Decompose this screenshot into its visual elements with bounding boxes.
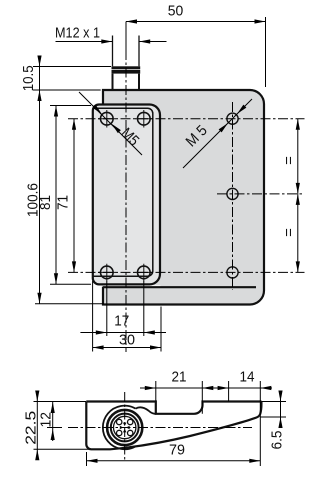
dim 6.5 [260,391,286,450]
dim 50 [126,3,266,88]
hinge leaf (inner plate) outer contour [93,105,160,285]
svg-text:14: 14 [240,369,255,386]
svg-text:=: = [281,228,298,237]
plate hole right-bottom [227,267,238,278]
dim 30 [93,281,161,352]
boss S-curve into notch [136,407,156,414]
dim 100.6 [24,183,104,304]
side view vertical centerline [124,392,126,461]
svg-text:79: 79 [169,442,185,459]
equal-spacing dim (right) [281,119,300,273]
fold line of plate bottom band [103,286,256,288]
main mounting plate (top view) [103,90,264,305]
leaf hole bottom-left [101,266,114,279]
dim 71 [55,119,77,273]
connector thread ring (dark band) [112,66,141,69]
hinge leaf inner fold line [94,108,153,276]
slot gap (white) between hinge leaf bottom and plate fold line [101,285,160,286]
side body outline [86,402,261,450]
dims 21 and 14 [140,369,272,467]
connector pins [117,419,133,435]
thread callout M12 x 1 [55,25,167,44]
svg-text:50: 50 [168,3,184,20]
dim 10.5 [20,56,111,304]
leaf hole top-right [138,112,151,125]
svg-text:=: = [281,156,298,165]
leaf hole top-left [101,112,114,125]
svg-text:10.5: 10.5 [20,65,37,91]
centerline middle hole row [217,193,305,195]
connector boss arc (side view) [103,406,136,450]
svg-text:12: 12 [37,412,54,428]
svg-text:71: 71 [55,195,72,210]
svg-text:6.5: 6.5 [268,431,285,450]
centerline top hole row [68,118,305,120]
centerline vertical through right hole column [232,102,234,290]
centerline vertical through connector and leaf [125,22,127,51]
plate hole right-top [227,113,238,124]
dim 79 [87,442,261,467]
connector rings (side view) [107,410,142,445]
M12 connector stem [113,36,140,91]
dim 17 [80,281,166,336]
side view horizontal centerline [68,427,252,429]
plate hole right-middle [227,188,238,199]
svg-text:M12 x 1: M12 x 1 [55,25,100,42]
svg-text:81: 81 [37,195,54,210]
dim 12 [37,402,62,441]
svg-text:30: 30 [119,332,135,349]
dim 81 [37,106,91,285]
dim 22.5 [22,391,89,461]
svg-text:17: 17 [114,313,129,330]
connector center cross [120,423,130,433]
leaf hole bottom-right [138,266,151,279]
centerline bottom hole row [68,271,305,273]
thread callout M5 (left leaf hole) [79,92,142,155]
thread callout M 5 (right plate hole) [183,99,252,168]
svg-text:21: 21 [172,369,187,386]
